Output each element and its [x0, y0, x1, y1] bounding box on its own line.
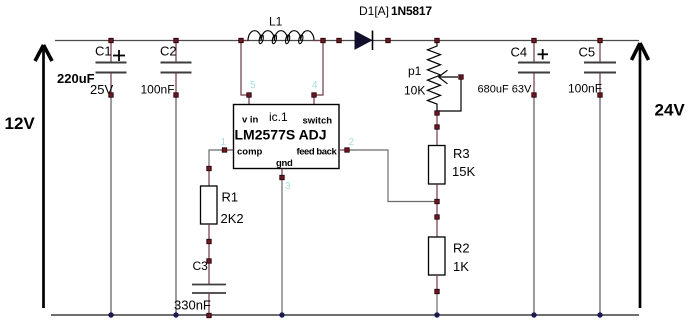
svg-text:v in: v in [242, 115, 259, 126]
svg-text:D1[A]: D1[A] [359, 4, 389, 18]
resistor R1 2K2 [201, 169, 218, 242]
svg-text:LM2577S ADJ: LM2577S ADJ [235, 127, 327, 143]
svg-text:C5: C5 [579, 45, 596, 60]
node R2 top pin [435, 215, 439, 219]
svg-text:4: 4 [312, 80, 318, 91]
node R1 bottom pin [207, 239, 211, 243]
IC pin stubs 5 and 4 [248, 95, 250, 105]
svg-text:R2: R2 [453, 241, 470, 256]
node gnd C1 [108, 312, 113, 317]
node D1 anode [337, 38, 341, 42]
node C5 top [598, 38, 602, 42]
svg-text:3: 3 [285, 181, 291, 192]
svg-text:R1: R1 [222, 190, 239, 205]
capacitor C3 330nF [192, 261, 226, 315]
op-amp U1 / IC LM2577S ADJ box [234, 105, 340, 169]
wire gnd pin to ground rail [281, 169, 283, 178]
node L1 right [321, 38, 325, 42]
svg-text:ic.1: ic.1 [269, 110, 288, 124]
ground rail junction dots [108, 312, 602, 317]
wire bottom ground rail [51, 314, 639, 316]
svg-text:R3: R3 [453, 146, 470, 161]
node C3 bottom pin [207, 313, 211, 317]
capacitor C1 220uF 25V [96, 40, 127, 95]
12V input arrow [35, 45, 52, 308]
node C2 top [174, 38, 178, 42]
svg-text:24V: 24V [655, 101, 686, 120]
potentiometer p1 10K [428, 41, 459, 113]
node gnd C2 [173, 312, 178, 317]
node C1 bottom pin [109, 93, 113, 97]
wire pot wiper to bottom [437, 77, 461, 111]
svg-text:100nF: 100nF [141, 83, 175, 97]
svg-text:1N5817: 1N5817 [391, 4, 432, 18]
node gnd R2 [434, 312, 439, 317]
node gnd pin [280, 175, 284, 179]
svg-text:C2: C2 [160, 44, 177, 59]
svg-text:100nF: 100nF [568, 82, 602, 96]
node C2 bottom pin [174, 93, 178, 97]
wire feedback pin stub [339, 149, 347, 151]
node R3 bottom pin [435, 199, 439, 203]
wire R3 to R2 [436, 202, 438, 218]
capacitor C5 100nF [584, 40, 616, 95]
wire C2 to ground [175, 95, 177, 314]
svg-text:1K: 1K [453, 259, 469, 274]
node p1 top [435, 38, 439, 42]
node C4 bottom pin [532, 93, 536, 97]
node R3 top pin [435, 125, 439, 129]
node gnd IC [279, 312, 284, 317]
wire pot bottom to R3 [436, 113, 438, 127]
node gnd C4 [531, 312, 536, 317]
junction pin squares [109, 38, 602, 317]
resistor R2 1K [429, 217, 446, 292]
node gnd C5 [597, 312, 602, 317]
svg-text:15K: 15K [452, 164, 475, 179]
svg-text:switch: switch [303, 116, 333, 127]
node feedback pin [345, 148, 349, 152]
wire L1 right to IC pin 4 [314, 41, 323, 96]
capacitor C2 100nF [161, 40, 192, 95]
svg-text:220uF: 220uF [57, 71, 95, 86]
diode D1 1N5817 [355, 31, 373, 51]
svg-text:10K: 10K [404, 84, 425, 98]
svg-text:680uF 63V: 680uF 63V [478, 84, 532, 96]
capacitor C4 680uF 63V [518, 40, 550, 95]
svg-text:feed back: feed back [297, 147, 338, 158]
node C3 top pin [207, 259, 211, 263]
node p1 bottom pin [435, 111, 439, 115]
svg-text:C1: C1 [95, 44, 112, 59]
inductor L1 [241, 31, 323, 44]
svg-text:2K2: 2K2 [221, 211, 244, 226]
svg-text:C4: C4 [511, 45, 528, 60]
svg-text:330nF: 330nF [174, 298, 211, 313]
wire C4 to ground [533, 95, 535, 314]
wire feedback to R3/R2 junction [347, 150, 437, 202]
node L1 left [239, 38, 243, 42]
svg-text:comp: comp [237, 147, 263, 158]
node IC pin4 [312, 93, 316, 97]
svg-text:12V: 12V [5, 114, 36, 133]
node IC pin5 [247, 93, 251, 97]
svg-text:gnd: gnd [276, 158, 293, 169]
wire R2 to ground [436, 292, 438, 315]
24V output arrow [632, 43, 649, 308]
wire C1 to ground [110, 95, 112, 314]
svg-text:C3: C3 [193, 259, 209, 273]
wire R1 to C3 [208, 242, 210, 262]
svg-text:p1: p1 [408, 64, 422, 78]
node R1 top pin [207, 166, 211, 170]
svg-text:2: 2 [349, 137, 355, 148]
node comp pin [222, 148, 226, 152]
wire comp pin to R1 [225, 149, 234, 151]
resistor R3 15K [429, 127, 446, 202]
wire L1 left to IC pin 5 [241, 41, 249, 96]
node p1 wiper pin [459, 75, 463, 79]
node C1 top [109, 38, 113, 42]
wire top rail (12V to 24V net) [55, 40, 639, 42]
node C4 top [532, 38, 536, 42]
svg-text:5: 5 [250, 80, 256, 91]
wire C5 to ground [599, 95, 601, 314]
node R2 bottom pin [435, 289, 439, 293]
node C5 bottom pin [598, 93, 602, 97]
svg-text:L1: L1 [269, 15, 283, 29]
svg-text:1: 1 [221, 137, 227, 148]
node D1 cathode [386, 38, 390, 42]
